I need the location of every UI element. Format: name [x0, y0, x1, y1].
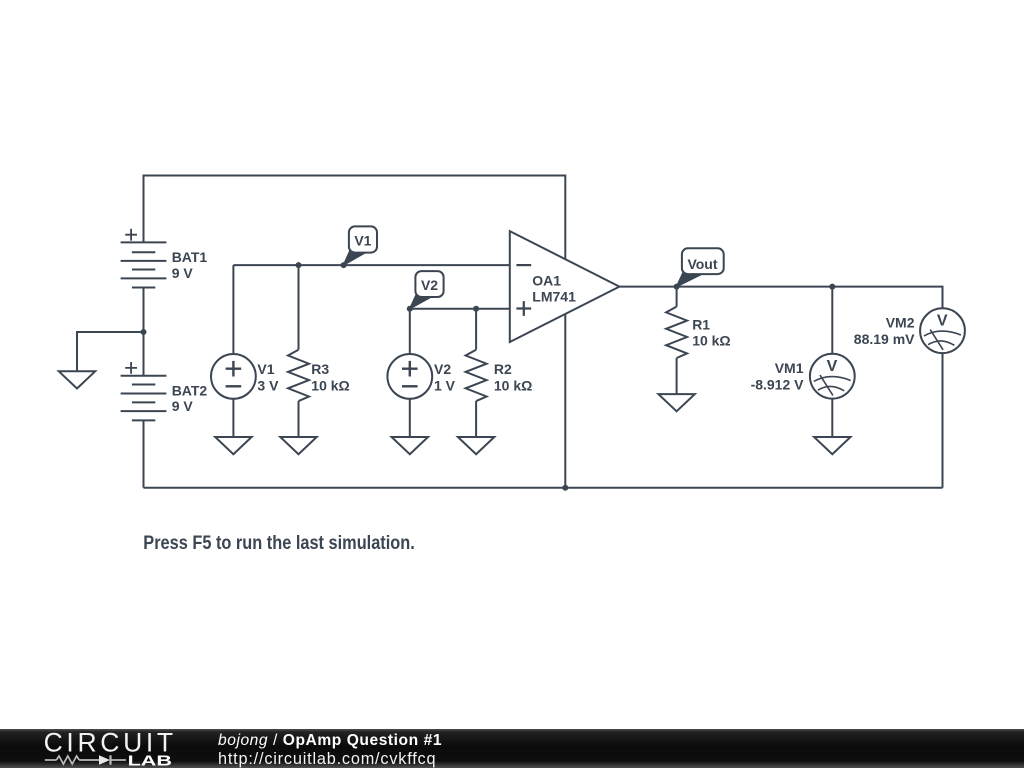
wire: bottom rail — [144, 487, 943, 489]
svg-text:V: V — [827, 358, 838, 375]
resistor R3 — [288, 350, 309, 401]
junction node: op-amp V- to bottom rail — [562, 485, 568, 491]
voltmeter VM2 — [920, 308, 965, 353]
svg-text:9 V: 9 V — [172, 398, 194, 414]
svg-text:V1: V1 — [354, 232, 371, 248]
ground (R2) — [458, 437, 494, 454]
svg-text:-8.912 V: -8.912 V — [751, 377, 805, 393]
wire: BAT1 positive to top rail and down to op-amp supply — [144, 176, 566, 488]
wire: VM1 bottom to ground — [831, 399, 833, 438]
svg-text:Press F5 to run the last simul: Press F5 to run the last simulation. — [143, 533, 415, 554]
svg-text:10 kΩ: 10 kΩ — [692, 333, 730, 349]
logo diode triangle — [99, 755, 110, 765]
wire: node V2 horizontal to op-amp non-inverting input — [410, 308, 510, 310]
svg-text:BAT1: BAT1 — [172, 249, 208, 265]
wire: R1 top — [676, 287, 678, 307]
svg-text:3 V: 3 V — [257, 377, 279, 393]
footer title: author / schematic name — [218, 733, 442, 749]
wire: V1 source bottom to ground — [232, 399, 234, 437]
flag label Vout — [677, 248, 724, 286]
flag label V2 — [410, 271, 444, 309]
battery BAT2 — [121, 362, 167, 420]
svg-text:VM2: VM2 — [886, 315, 915, 331]
CircuitLab logo — [40, 728, 180, 768]
ground (battery mid node) — [59, 371, 95, 388]
resistor R2 — [466, 350, 487, 401]
wire: R1 bottom to ground — [676, 358, 678, 394]
svg-text:V: V — [937, 313, 948, 330]
wire: R3 top — [298, 265, 300, 350]
wire: BAT1 bottom to BAT2 top — [143, 288, 145, 376]
voltage source V2 — [387, 354, 432, 399]
ground (R3) — [280, 437, 316, 454]
junction node: R2 top — [473, 306, 479, 312]
junction node: Vout / R1 top — [674, 284, 680, 290]
junction node: battery mid — [141, 329, 147, 335]
svg-text:V1: V1 — [257, 361, 274, 377]
svg-text:1 V: 1 V — [434, 377, 456, 393]
wire: V2 source top — [409, 309, 411, 354]
svg-text:R2: R2 — [494, 361, 512, 377]
wire: V2 source bottom to ground — [409, 399, 411, 437]
ground (V2) — [392, 437, 428, 454]
flag label V1 — [344, 226, 378, 265]
svg-text:V2: V2 — [421, 277, 438, 293]
wire: R2 bottom to ground — [475, 401, 477, 437]
svg-text:Vout: Vout — [687, 256, 717, 272]
junction node: VM1 top — [829, 284, 835, 290]
op-amp U1 triangle — [510, 231, 620, 342]
wire: VM1 top — [831, 287, 833, 354]
svg-text:V2: V2 — [434, 361, 451, 377]
svg-text:LM741: LM741 — [532, 289, 576, 305]
voltage source V1 — [211, 354, 256, 399]
svg-text:9 V: 9 V — [172, 265, 194, 281]
junction node: R3 top — [296, 262, 302, 268]
wire: mid-battery node to ground stub — [77, 332, 144, 371]
ground (V1) — [215, 437, 251, 454]
ground (R1) — [658, 394, 694, 411]
svg-text:R3: R3 — [311, 361, 329, 377]
battery BAT1 — [121, 229, 167, 288]
wire: VM2 bottom to bottom rail — [942, 353, 944, 488]
wire: R3 bottom to ground — [298, 401, 300, 437]
wire: R2 top — [475, 309, 477, 350]
footer bar — [0, 729, 1024, 768]
svg-text:R1: R1 — [692, 316, 710, 332]
svg-text:10 kΩ: 10 kΩ — [494, 377, 532, 393]
wire: BAT2 bottom to bottom rail — [143, 420, 145, 487]
wire: V1 source top — [232, 265, 234, 354]
svg-text:BAT2: BAT2 — [172, 383, 208, 399]
svg-text:OA1: OA1 — [532, 272, 561, 288]
junction node: V1 flag anchor — [341, 262, 347, 268]
resistor R1 — [666, 307, 687, 358]
svg-text:LAB: LAB — [128, 754, 172, 768]
svg-text:VM1: VM1 — [775, 360, 804, 376]
footer url text — [218, 751, 436, 767]
svg-text:88.19 mV: 88.19 mV — [854, 331, 915, 347]
junction node: V2 flag anchor — [407, 306, 413, 312]
ground (VM1) — [814, 437, 850, 454]
wire: node V1 horizontal to op-amp inverting input — [233, 264, 509, 266]
voltmeter VM1 — [810, 354, 855, 399]
svg-text:10 kΩ: 10 kΩ — [311, 377, 349, 393]
wire: op-amp output to VM2 drop — [619, 287, 942, 309]
logo resistor-diode wire glyph — [45, 755, 126, 764]
